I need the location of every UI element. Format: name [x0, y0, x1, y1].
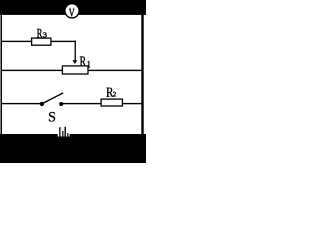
battery plate short 1 [62, 131, 63, 137]
label S [49, 112, 55, 122]
label R1 letter R [80, 57, 86, 67]
label R3 letter R [37, 29, 42, 38]
switch S right terminal dot [59, 102, 63, 106]
label R2 letter R [106, 88, 113, 97]
rheostat R1 body [62, 66, 88, 74]
wire drop from row2 to rheostat wiper [75, 41, 76, 61]
battery plate long 2 [65, 127, 66, 137]
resistor R3 body [32, 38, 51, 45]
switch S left terminal dot [40, 102, 44, 106]
label R2 subscript 2 [113, 92, 116, 96]
voltmeter V circle [65, 4, 79, 18]
wire row3 horizontal [1, 70, 142, 71]
wire row4 left segment [1, 103, 43, 104]
voltmeter V letter [69, 9, 75, 17]
label R3 subscript 3 [43, 33, 47, 38]
wire row2 horizontal [1, 41, 76, 42]
wire row4 right segment [60, 103, 142, 104]
battery plate long 1 [59, 127, 60, 136]
bottom black margin band (bottom wire of loop) [0, 134, 146, 163]
wire left rail [1, 14, 3, 135]
rheostat wiper arrowhead [72, 60, 77, 64]
battery plate short 2 [67, 133, 68, 137]
wire right rail [141, 14, 143, 135]
switch S blade [43, 93, 64, 104]
label R1 subscript 1 [88, 61, 90, 67]
top black margin band (top wire of loop) [0, 0, 146, 15]
battery white notch in bottom band [58, 134, 70, 137]
resistor R2 body [101, 99, 122, 106]
